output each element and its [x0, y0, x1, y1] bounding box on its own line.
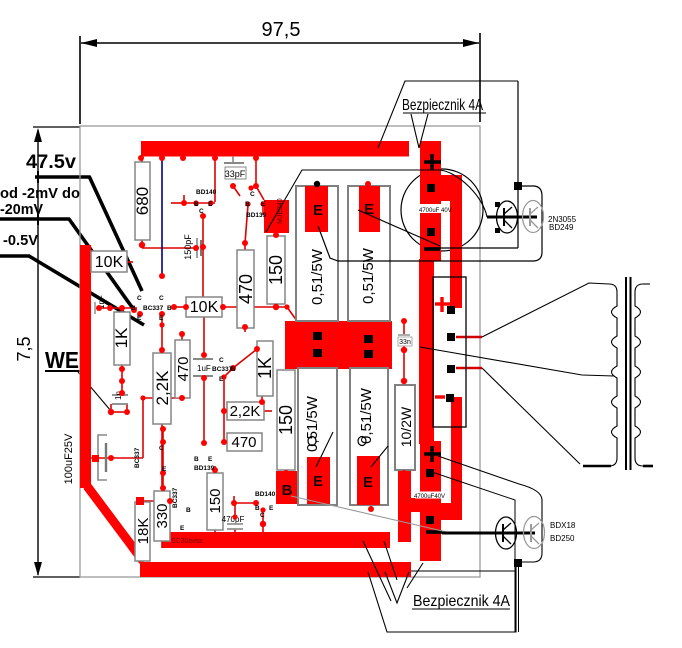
dimension 97,5 top [80, 19, 480, 124]
svg-text:33pF: 33pF [225, 169, 246, 179]
svg-text:BD140: BD140 [196, 189, 217, 196]
svg-text:E: E [269, 505, 274, 512]
cap C7 value band [417, 204, 448, 213]
svg-text:B: B [255, 505, 260, 512]
stub joining rails [440, 175, 450, 201]
red copper traces [80, 141, 462, 577]
capacitor 150pF [183, 234, 201, 260]
svg-text:470: 470 [231, 434, 256, 451]
svg-text:C: C [137, 295, 142, 302]
label WE input [45, 347, 89, 373]
resistor 0,51/5W A [296, 186, 338, 321]
board outline [80, 126, 480, 577]
svg-text:E: E [261, 201, 266, 208]
svg-text:47.5v: 47.5v [26, 152, 76, 173]
svg-text:B: B [194, 456, 199, 463]
capacitor 33n [398, 335, 412, 346]
plus mark cap C8 [424, 446, 441, 462]
svg-text:BD250: BD250 [550, 534, 575, 543]
svg-text:0,51/5W: 0,51/5W [358, 387, 375, 444]
svg-text:od -2mV do: od -2mV do [0, 185, 80, 202]
svg-text:BC337: BC337 [134, 447, 141, 468]
svg-text:470: 470 [175, 356, 192, 381]
wire fuse to Q5 collector [517, 81, 519, 184]
fuse callout box bottom [363, 541, 516, 632]
resistor 2,2K b [227, 402, 264, 420]
wire E2 to cap [358, 210, 440, 246]
svg-text:E: E [137, 315, 142, 322]
red terminal wires [456, 336, 482, 338]
svg-text:0,51/5W: 0,51/5W [309, 248, 326, 305]
svg-text:E: E [208, 201, 213, 208]
svg-text:150: 150 [266, 255, 286, 285]
resistor value texts vertical [95, 187, 414, 545]
bottom ground bar 1 [162, 532, 390, 548]
pad E4 [357, 456, 380, 505]
svg-text:B: B [231, 366, 236, 373]
leader od-2mV [0, 214, 134, 310]
bottom cap column [398, 471, 411, 542]
capacitor 1uF [193, 359, 213, 376]
capacitor 100uF25V [63, 433, 107, 484]
transformer bottom leads [583, 465, 611, 468]
wire board to transformer bottom [482, 368, 580, 464]
resistor 0,51/5W C [298, 368, 337, 505]
transistor Q6 BD249 [523, 201, 544, 233]
svg-text:97,5: 97,5 [262, 19, 301, 41]
svg-text:10K: 10K [95, 254, 124, 271]
capacitor 1n input [112, 391, 128, 404]
transformer [420, 277, 650, 470]
leader WE [78, 372, 111, 411]
resistor 470 a [175, 340, 190, 398]
svg-text:680: 680 [133, 187, 152, 215]
right rail lower [451, 397, 462, 520]
svg-text:B: B [131, 305, 136, 312]
svg-text:7,5: 7,5 [14, 336, 34, 361]
svg-text:BD139: BD139 [194, 465, 215, 472]
svg-text:B: B [186, 507, 191, 514]
fuse callout box top [378, 81, 518, 148]
svg-text:Bezpiecznik 4A: Bezpiecznik 4A [402, 97, 483, 114]
resistor 10K b [186, 297, 222, 317]
red minus mark terminal [435, 395, 445, 398]
svg-text:E: E [313, 473, 323, 490]
wire emitter ring top [318, 186, 542, 261]
wire collector down [517, 186, 519, 248]
resistor 10K a [91, 251, 127, 272]
resistor 2,2K a [153, 353, 171, 424]
svg-text:E: E [162, 466, 167, 473]
terminal block connector [433, 277, 466, 427]
minus mark cap C8 [426, 530, 442, 534]
svg-text:SC30beta: SC30beta [171, 538, 202, 545]
svg-text:E: E [159, 315, 164, 322]
transistor pad MJE340 [264, 200, 289, 233]
central pad block [285, 321, 392, 369]
svg-text:330: 330 [154, 503, 171, 528]
svg-text:1K: 1K [112, 327, 131, 348]
node Q5 collector pad [514, 182, 522, 190]
svg-text:E: E [313, 202, 323, 219]
svg-text:BD249: BD249 [549, 223, 574, 232]
bottom supply bar 2 [140, 562, 411, 577]
svg-text:B: B [245, 201, 250, 208]
svg-text:2,2K: 2,2K [230, 403, 261, 420]
tiny transistor labels [131, 189, 276, 532]
pad E1 [305, 186, 328, 232]
E letters on pads [282, 201, 374, 499]
component boxes [91, 162, 295, 561]
wire board to transformer top [482, 283, 609, 337]
leader -0.5V [0, 256, 144, 325]
resistor 0,51/5W D [350, 368, 388, 505]
bottom cap notch [441, 503, 462, 520]
capacitor C7 4700uF circle [401, 169, 483, 251]
svg-text:C: C [250, 191, 255, 198]
svg-text:C: C [159, 445, 164, 452]
svg-text:BDX18: BDX18 [550, 521, 576, 530]
cap C7 positive bar [420, 141, 441, 261]
wire cap plus to Q7 collector [438, 456, 542, 500]
svg-text:10/2W: 10/2W [398, 406, 414, 447]
red emitter pads inside power resistors [305, 186, 380, 505]
pin marks O [308, 437, 316, 446]
svg-text:E: E [219, 376, 224, 383]
base lead Q7/Q8 [442, 532, 535, 535]
pad E2 [359, 186, 380, 232]
secondary winding [635, 284, 643, 466]
pad E3 [307, 457, 330, 504]
red plus mark terminal [435, 297, 450, 312]
svg-text:470: 470 [236, 274, 256, 304]
svg-text:1uF: 1uF [197, 364, 211, 373]
vertical trace below cap [419, 259, 434, 444]
resistor 470 c [227, 433, 262, 451]
svg-text:4700uF 40V: 4700uF 40V [419, 208, 452, 214]
resistor 18K [135, 502, 150, 561]
wire to bottom fuse [426, 470, 515, 632]
resistor 150 a [267, 236, 285, 304]
core [625, 277, 627, 470]
svg-text:150: 150 [276, 405, 296, 435]
red pads [96, 155, 407, 527]
svg-text:B: B [194, 201, 199, 208]
svg-text:BC337: BC337 [212, 366, 233, 373]
resistor 150 b [277, 370, 295, 470]
svg-text:150: 150 [207, 488, 224, 513]
wire Q7 emitter box [518, 500, 542, 562]
pad B [276, 471, 297, 504]
svg-text:33n: 33n [399, 339, 411, 346]
svg-text:0,51/5W: 0,51/5W [304, 395, 321, 452]
dimension 7,5 left [14, 127, 80, 577]
black solder pads [313, 184, 455, 524]
red diagonal trace bottom-left [87, 486, 143, 561]
plus mark cap C7 [424, 154, 441, 170]
svg-text:-0.5V: -0.5V [3, 232, 38, 249]
svg-text:C: C [199, 208, 204, 215]
capacitor 470pF [222, 515, 245, 529]
wire pad down [518, 566, 520, 632]
svg-text:BC337: BC337 [143, 305, 164, 312]
wire to cap minus [440, 247, 518, 249]
node Q7 pad [514, 559, 522, 567]
svg-text:E: E [364, 201, 374, 218]
svg-text:100uF25V: 100uF25V [63, 433, 75, 484]
left input ground strip [80, 245, 91, 488]
svg-text:18K: 18K [135, 518, 152, 545]
right rail upper [450, 175, 462, 308]
resistor 1K b [257, 341, 273, 396]
resistor 10/2W [395, 385, 415, 470]
top supply bar [141, 141, 409, 157]
svg-text:Bezpiecznik 4A: Bezpiecznik 4A [413, 593, 510, 610]
resistor 470 b [237, 250, 254, 328]
minus mark cap C7 [424, 247, 440, 251]
svg-text:C: C [219, 357, 224, 364]
svg-text:-20mV: -20mV [0, 201, 43, 218]
capacitor 1nF small [95, 295, 106, 314]
svg-text:1K: 1K [255, 357, 275, 379]
wire base bottom gray [291, 496, 451, 533]
thin red traces [91, 156, 404, 562]
svg-text:10K: 10K [190, 299, 219, 316]
blue wire [161, 156, 163, 276]
transistor Q7 BDX18 [496, 517, 517, 549]
svg-text:BD139: BD139 [246, 212, 267, 219]
primary winding [609, 284, 617, 466]
leader 47.5v [35, 171, 142, 291]
wire base top from board [266, 170, 487, 232]
cap C8 value band [415, 492, 446, 499]
svg-text:150pF: 150pF [183, 234, 193, 260]
svg-text:E: E [180, 525, 185, 532]
base lead Q5/Q6 [487, 216, 537, 219]
bottom cap body [420, 441, 441, 561]
resistor 330 [154, 491, 170, 541]
resistor 680 [135, 162, 150, 240]
capacitor 33pF [224, 156, 246, 179]
svg-text:WE: WE [45, 347, 79, 373]
wire to pad E4 [371, 446, 388, 467]
svg-text:B: B [167, 305, 172, 312]
svg-text:C: C [159, 295, 164, 302]
svg-text:C: C [260, 512, 265, 519]
transistor Q5 2N3055 [497, 201, 518, 233]
svg-text:E: E [208, 456, 213, 463]
svg-text:2,2K: 2,2K [153, 370, 172, 406]
resistor 0,51/5W B [348, 186, 390, 321]
svg-text:4700uF40V: 4700uF40V [414, 494, 445, 500]
svg-text:BD140: BD140 [255, 491, 276, 498]
svg-text:E: E [363, 474, 373, 491]
wire to pad E3 [316, 432, 333, 467]
resistor 150 c [207, 473, 223, 530]
svg-text:BC337: BC337 [172, 487, 179, 508]
resistor 1K a [114, 312, 130, 365]
svg-text:0,51/5W: 0,51/5W [360, 247, 377, 304]
wire board to transformer tap [420, 347, 614, 376]
transistor Q8 BD250 [524, 517, 545, 549]
